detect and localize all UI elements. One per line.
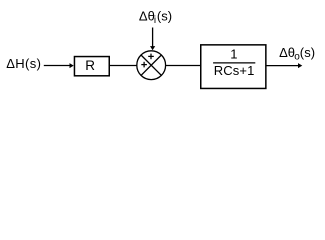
svg-text:(s): (s) — [157, 9, 172, 24]
svg-text:RCs+1: RCs+1 — [214, 63, 255, 78]
svg-text:i: i — [154, 15, 156, 26]
svg-text:Δθ: Δθ — [279, 45, 295, 60]
svg-text:Δθ: Δθ — [139, 9, 155, 24]
svg-text:R: R — [85, 58, 95, 73]
svg-text:(s): (s) — [300, 45, 315, 60]
svg-text:ΔH(s): ΔH(s) — [6, 56, 41, 71]
svg-text:1: 1 — [230, 47, 237, 62]
